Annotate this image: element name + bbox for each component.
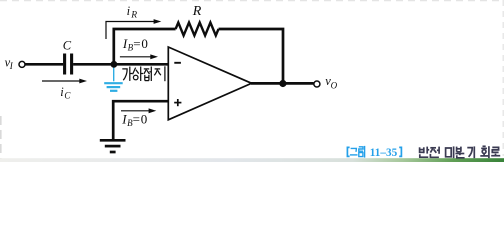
svg-text:=0: =0 [133, 36, 148, 51]
svg-text:=0: =0 [133, 112, 148, 127]
svg-text:R: R [192, 4, 202, 19]
svg-text:11–35: 11–35 [370, 147, 398, 159]
svg-text:C: C [64, 90, 71, 100]
svg-text:C: C [63, 39, 72, 53]
svg-text:i: i [127, 4, 131, 18]
svg-text:O: O [331, 81, 338, 91]
svg-text:R: R [130, 10, 137, 20]
